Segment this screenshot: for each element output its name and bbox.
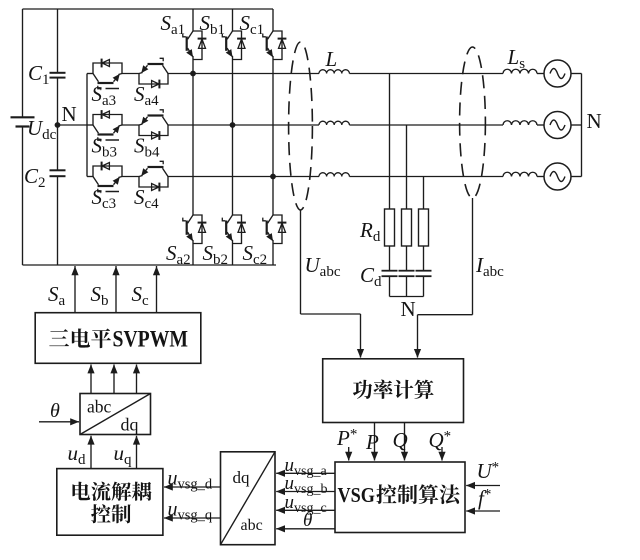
transistor Sb1 xyxy=(222,31,246,60)
label Iabc xyxy=(475,253,504,280)
wire filter tap 1 xyxy=(389,74,391,210)
node N midpoint xyxy=(55,122,61,128)
wire Uabc sense xyxy=(301,210,365,358)
transistor Sb4 xyxy=(139,110,168,140)
wire filter tap 3 xyxy=(423,177,425,210)
svg-text:uvsg_d: uvsg_d xyxy=(168,468,213,493)
capacitor C1 xyxy=(50,73,66,78)
label dq 2 xyxy=(233,468,251,487)
svg-text:abc: abc xyxy=(241,517,263,534)
battery Udc xyxy=(11,117,35,126)
wire uvsg_d xyxy=(164,483,221,490)
wire Q xyxy=(401,423,408,461)
wire uvsg_q xyxy=(164,514,221,521)
label Ls xyxy=(507,45,526,72)
svg-text:Sc3: Sc3 xyxy=(92,185,117,212)
label Sa1 xyxy=(161,11,186,38)
svg-text:L: L xyxy=(325,47,338,71)
wire gate signal Sc xyxy=(153,266,160,313)
block current decoupling control xyxy=(57,469,163,536)
svg-text:N: N xyxy=(587,109,602,133)
svg-text:f*: f* xyxy=(478,486,491,510)
voltage sensor ellipse xyxy=(289,42,313,210)
label ud xyxy=(68,441,87,468)
label current decoupling text xyxy=(72,482,151,524)
svg-text:Sb: Sb xyxy=(91,282,109,309)
wire phase leg c xyxy=(272,9,274,265)
wire uq xyxy=(133,436,140,469)
wire capacitor bus xyxy=(57,9,59,265)
resistor Rd 2 xyxy=(402,209,412,246)
wire gate signal Sa xyxy=(71,266,78,313)
label N grid xyxy=(587,109,602,133)
wire bottom DC rail xyxy=(23,264,277,266)
svg-text:Sa3: Sa3 xyxy=(92,82,117,109)
wire left DC bus xyxy=(22,9,24,265)
wire f* input xyxy=(466,507,500,514)
resistor Rd 1 xyxy=(385,209,395,246)
svg-text:Sb1: Sb1 xyxy=(200,11,226,38)
capacitor Cd 3 xyxy=(416,271,432,277)
label VSG text xyxy=(338,483,460,507)
node phase c junction xyxy=(270,174,276,180)
label Sb4 xyxy=(134,134,160,161)
wire Rd to Cd 3 xyxy=(423,246,425,271)
label uvsg_b xyxy=(285,473,328,497)
inductor Ls phase c xyxy=(503,172,537,176)
label theta input xyxy=(50,400,60,422)
transistor Sa3 xyxy=(93,59,122,89)
inductor L phase a xyxy=(319,70,349,74)
wire gate signal Sb xyxy=(112,266,119,313)
label Sb3 xyxy=(92,134,120,161)
wire theta to dq-abc xyxy=(276,525,335,532)
svg-text:Sa: Sa xyxy=(48,282,66,309)
svg-text:N: N xyxy=(62,102,77,126)
transistor Sc1 xyxy=(263,31,287,60)
wire Q* ref xyxy=(438,447,445,461)
wire filter neutral bar xyxy=(390,296,424,298)
wire phase line c xyxy=(273,176,544,178)
label Sa xyxy=(48,282,66,309)
node phase a junction xyxy=(190,71,196,77)
label SVPWM text xyxy=(49,326,188,351)
label Sc xyxy=(132,282,150,309)
label power calculation text xyxy=(353,380,434,399)
label P xyxy=(365,430,379,454)
svg-text:Sb2: Sb2 xyxy=(203,241,229,268)
label uvsg_a xyxy=(285,455,328,479)
inductor L phase b xyxy=(319,121,349,125)
wire phase leg a xyxy=(192,9,194,265)
label uq xyxy=(114,441,133,468)
transistor Sc4 xyxy=(139,161,168,191)
svg-text:N: N xyxy=(401,297,416,321)
node phase b junction xyxy=(230,122,236,128)
block VSG control xyxy=(335,462,465,533)
svg-text:Ls: Ls xyxy=(507,45,526,72)
label Sc1 xyxy=(240,11,265,38)
label Sc4 xyxy=(134,185,159,212)
label Sa3 xyxy=(92,82,120,109)
resistor Rd 3 xyxy=(419,209,429,246)
label Udc xyxy=(27,116,57,143)
svg-text:Rd: Rd xyxy=(359,218,381,245)
AC source phase c xyxy=(544,163,571,190)
wire top DC rail xyxy=(23,8,274,10)
wire uvsg_b xyxy=(276,488,335,495)
label uvsg_d xyxy=(168,468,213,493)
wire Cd to neutral 2 xyxy=(406,276,408,296)
svg-text:abc: abc xyxy=(87,397,112,417)
wire source b to bus xyxy=(571,124,582,126)
svg-text:P: P xyxy=(365,430,379,454)
transistor Sc3 xyxy=(93,162,122,192)
wire theta input xyxy=(39,418,79,425)
wire neutral to clamp bus xyxy=(58,124,88,126)
svg-text:uvsg_q: uvsg_q xyxy=(168,499,213,524)
wire P* ref xyxy=(345,447,352,461)
svg-text:Q: Q xyxy=(393,428,408,452)
label abc 2 xyxy=(241,517,263,534)
wire source a to bus xyxy=(571,73,582,75)
label C2 xyxy=(24,164,46,191)
label N filter xyxy=(401,297,416,321)
block SVPWM xyxy=(35,313,201,364)
inductor L phase c xyxy=(319,173,349,177)
label uvsg_c xyxy=(285,492,327,516)
label uvsg_q xyxy=(168,499,213,524)
svg-text:θ: θ xyxy=(303,510,312,531)
label dq xyxy=(121,415,139,435)
label Sb1 xyxy=(200,11,226,38)
svg-text:C2: C2 xyxy=(24,164,46,191)
svg-text:θ: θ xyxy=(50,400,60,422)
label L xyxy=(325,47,338,71)
transistor Sa1 xyxy=(183,31,207,60)
svg-text:uq: uq xyxy=(114,441,133,468)
label N midpoint xyxy=(62,102,77,126)
label f* xyxy=(478,486,491,510)
wire phase line b xyxy=(233,124,545,126)
svg-text:Sc: Sc xyxy=(132,282,150,309)
wire phase line a xyxy=(193,73,544,75)
wire source c to bus xyxy=(571,176,582,178)
svg-text:U*: U* xyxy=(477,459,500,483)
label Sa2 xyxy=(166,241,191,268)
svg-text:dq: dq xyxy=(233,468,251,487)
label abc xyxy=(87,397,112,417)
wire grid neutral bus xyxy=(581,74,583,177)
wire Cd to neutral 1 xyxy=(389,276,391,296)
wire P xyxy=(371,423,378,461)
svg-text:Sa1: Sa1 xyxy=(161,11,186,38)
label C1 xyxy=(28,61,50,88)
wire Cd to neutral 3 xyxy=(423,276,425,296)
block dq-abc transform xyxy=(221,452,276,545)
label Sb2 xyxy=(203,241,229,268)
wire uvsg_c xyxy=(276,507,335,514)
svg-text:C1: C1 xyxy=(28,61,50,88)
capacitor Cd 1 xyxy=(382,271,398,277)
inductor Ls phase b xyxy=(503,121,537,125)
transistor Sb2 xyxy=(222,215,246,244)
wire clamp row b xyxy=(87,124,233,126)
wire modulation signal xyxy=(133,364,140,393)
transistor Sa4 xyxy=(139,58,168,88)
wire clamp left bus xyxy=(86,74,88,177)
svg-text:Iabc: Iabc xyxy=(475,253,504,280)
label Q xyxy=(393,428,408,452)
capacitor C2 xyxy=(50,170,66,176)
svg-text:dq: dq xyxy=(121,415,139,435)
svg-text:Udc: Udc xyxy=(27,116,57,143)
svg-text:Q*: Q* xyxy=(429,428,452,452)
label Uabc xyxy=(305,253,341,280)
AC source phase b xyxy=(544,112,571,139)
label theta 2 xyxy=(303,510,312,531)
wire filter tap 2 xyxy=(406,125,408,209)
label Cd xyxy=(360,263,382,290)
wire U* input xyxy=(466,482,500,489)
svg-text:SVPWM: SVPWM xyxy=(113,326,189,351)
svg-text:Sa2: Sa2 xyxy=(166,241,191,268)
svg-text:ud: ud xyxy=(68,441,87,468)
label Sa4 xyxy=(134,82,159,109)
wire ud xyxy=(87,436,94,469)
wire Rd to Cd 1 xyxy=(389,246,391,271)
svg-text:Cd: Cd xyxy=(360,263,382,290)
label Sc2 xyxy=(243,241,268,268)
transistor Sa2 xyxy=(183,215,207,244)
svg-text:VSG: VSG xyxy=(338,483,376,507)
block power calculation xyxy=(323,359,464,423)
transistor Sb3 xyxy=(93,110,122,140)
wire clamp row c xyxy=(87,176,273,178)
label Sb xyxy=(91,282,109,309)
label Sc3 xyxy=(92,185,120,212)
svg-text:Sb3: Sb3 xyxy=(92,134,118,161)
wire Iabc sense xyxy=(414,198,473,358)
svg-text:Sc1: Sc1 xyxy=(240,11,265,38)
block abc-dq transform xyxy=(80,394,151,435)
wire phase leg b xyxy=(232,9,234,265)
capacitor Cd 2 xyxy=(399,271,415,277)
inductor Ls phase a xyxy=(503,69,537,73)
transistor Sc2 xyxy=(263,215,287,244)
svg-text:Sc2: Sc2 xyxy=(243,241,268,268)
AC source phase a xyxy=(544,60,571,87)
label Q* xyxy=(429,428,452,452)
label Rd xyxy=(359,218,381,245)
label U* xyxy=(477,459,500,483)
wire Rd to Cd 2 xyxy=(406,246,408,271)
current sensor ellipse xyxy=(460,47,486,198)
svg-text:P*: P* xyxy=(336,426,357,450)
wire modulation signal xyxy=(110,364,117,393)
wire uvsg_a xyxy=(276,470,335,477)
label P* xyxy=(336,426,357,450)
wire modulation signal xyxy=(87,364,94,393)
svg-text:Uabc: Uabc xyxy=(305,253,341,280)
wire clamp row a xyxy=(87,73,193,75)
